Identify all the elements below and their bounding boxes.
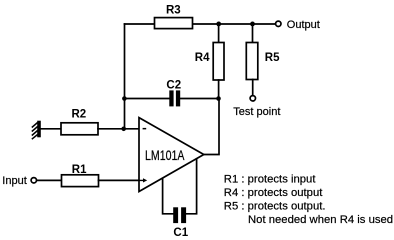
svg-text:R4: R4 — [195, 52, 210, 64]
test point terminal circle — [250, 96, 255, 101]
wire C1 right stub — [186, 159, 197, 214]
svg-text:C1: C1 — [173, 227, 188, 238]
junction node C2 right / output — [216, 96, 221, 101]
junction node C2 left — [122, 96, 127, 101]
capacitor C2 plates — [169, 90, 173, 106]
ground hatching — [32, 123, 38, 140]
wire C2 right — [180, 98, 218, 100]
svg-text:R5: R5 — [265, 52, 280, 64]
wire input terminal to R1 — [37, 179, 62, 181]
svg-text:Output: Output — [287, 19, 320, 31]
svg-text:R5 : protects output.: R5 : protects output. — [224, 201, 326, 213]
wire C2 left — [125, 98, 170, 100]
svg-text:R3: R3 — [166, 4, 181, 16]
wire R2 to inverting input — [98, 128, 139, 130]
wire top left to R3 — [125, 23, 155, 25]
svg-text:R2: R2 — [72, 109, 87, 121]
wire R4 top lead — [218, 24, 220, 43]
op-amp inverting minus sign — [143, 128, 147, 129]
svg-text:Input: Input — [2, 175, 26, 187]
resistor R5 — [246, 43, 257, 80]
resistor R1 — [62, 175, 99, 187]
svg-text:C2: C2 — [166, 80, 181, 92]
svg-text:R1 : protects input: R1 : protects input — [224, 174, 317, 186]
resistor R3 — [155, 18, 193, 29]
wire op-amp output — [204, 99, 219, 155]
wire ground to R2 — [41, 128, 61, 130]
op-amp U1 LM101A triangle — [139, 118, 204, 192]
op-amp non-inverting input arrow — [140, 178, 148, 182]
wire R3 to output node — [193, 23, 276, 25]
resistor R2 — [61, 123, 98, 135]
wire R4 bottom lead — [218, 80, 220, 99]
junction node inverting input — [121, 127, 126, 132]
input terminal circle — [31, 178, 36, 183]
junction node at R5 top — [250, 22, 255, 27]
ground chassis bar — [37, 121, 41, 138]
output terminal circle — [276, 21, 281, 26]
wire C1 left stub — [163, 179, 174, 214]
junction node at R4 top — [216, 22, 221, 27]
wire R1 to non-inverting input — [99, 179, 140, 181]
resistor R4 — [213, 43, 224, 81]
svg-text:Not needed when R4 is used: Not needed when R4 is used — [248, 214, 393, 226]
capacitor C1 plates — [173, 207, 178, 223]
wire R5 top lead — [252, 24, 254, 43]
svg-text:Test point: Test point — [233, 106, 280, 118]
svg-text:R4 : protects output: R4 : protects output — [224, 187, 323, 199]
svg-text:LM101A: LM101A — [145, 147, 185, 163]
wire R5 to test point — [252, 80, 254, 96]
svg-text:R1: R1 — [72, 164, 87, 176]
wire feedback vertical — [124, 24, 126, 129]
